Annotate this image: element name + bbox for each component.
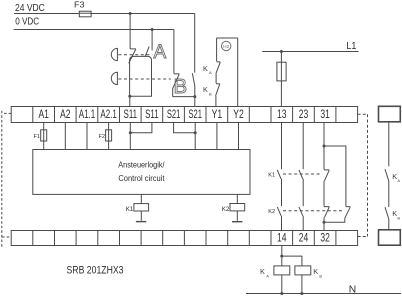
contact KA external (385, 169, 389, 207)
svg-text:S11: S11 (124, 107, 138, 121)
contact KA (feedback NC) (216, 38, 221, 74)
mech link A (dashed) (118, 54, 152, 56)
svg-text:K1: K1 (126, 206, 134, 213)
svg-text:S11: S11 (145, 107, 159, 121)
svg-text:B: B (319, 274, 322, 279)
wire A1.1 to logic (86, 123, 88, 150)
wire jumper S21-S21 (174, 123, 196, 133)
svg-text:B: B (174, 75, 188, 98)
svg-text:A: A (153, 42, 166, 63)
svg-text:A1.1: A1.1 (79, 107, 96, 121)
wire 0VDC rail (14, 29, 174, 31)
svg-text:13: 13 (277, 107, 287, 121)
terminal row top (11, 107, 357, 123)
svg-text:A2: A2 (60, 107, 71, 121)
node branch bottom (323, 221, 326, 224)
svg-text:H2: H2 (223, 44, 229, 49)
switch B body bottom (173, 96, 195, 98)
node on L1 (280, 50, 283, 53)
contact column 23-24 (299, 123, 303, 231)
switch A body (130, 56, 152, 96)
wire from top box (388, 122, 390, 167)
svg-text:14: 14 (277, 230, 287, 244)
contact KB (feedback NC) (216, 74, 220, 107)
external device box bottom right (379, 230, 401, 245)
control logic box U1 (33, 150, 250, 195)
svg-text:A1: A1 (38, 107, 49, 121)
wire S11 to logic (129, 123, 131, 150)
mech link K2 (dashed) (283, 210, 344, 212)
wire jumper S11-S11 (130, 123, 152, 133)
external device box top right (379, 106, 401, 122)
wire drop 24VDC to switch A contact 1 (129, 14, 131, 49)
wire switch B to S21 (194, 97, 196, 107)
wire branch to KB coil (282, 256, 302, 266)
wire A1 to fuse F1 (43, 123, 45, 130)
contactor coil KB (295, 266, 311, 275)
actuator cam A (111, 48, 117, 60)
contact column 13-14 (277, 123, 281, 231)
node KA on N (280, 292, 283, 295)
fuse on L1 drop (277, 62, 286, 81)
svg-text:A: A (397, 178, 400, 183)
svg-text:K1: K1 (268, 172, 275, 178)
wire L1 to terminal 13 (280, 52, 282, 107)
svg-text:23: 23 (299, 107, 309, 121)
wire L1 rail (262, 51, 358, 53)
relay coil K2 (236, 194, 238, 203)
wire loop right to Y2 (237, 38, 239, 107)
node jumper S11 (129, 131, 132, 134)
wire Y2 to logic (238, 123, 240, 150)
svg-text:32: 32 (320, 230, 330, 244)
node jumper S21 (194, 131, 197, 134)
switch B contact 2 (192, 73, 195, 96)
svg-text:S21: S21 (188, 107, 202, 121)
wire KB coil to N (301, 275, 303, 294)
node junction on 0VDC (151, 28, 154, 31)
switch A contact 1 (NC) (129, 49, 136, 64)
wire 14 to coils (281, 246, 283, 267)
svg-text:F1: F1 (34, 134, 41, 140)
wire drop 0VDC corner to switch B contact 1 (173, 30, 175, 74)
fuse F2 (106, 130, 112, 141)
mech link K1 (dashed) (283, 173, 322, 175)
svg-text:24: 24 (299, 230, 309, 244)
wire A2 to logic (64, 123, 66, 150)
node junction on 24VDC (129, 12, 132, 15)
svg-text:K: K (203, 85, 208, 94)
svg-text:Ansteuerlogik/: Ansteuerlogik/ (118, 159, 165, 169)
svg-text:K: K (313, 267, 318, 276)
wire drop 0VDC to switch A contact 2 (151, 30, 153, 51)
feedback loop top wire (217, 37, 238, 39)
svg-text:B: B (209, 92, 212, 97)
svg-text:N: N (349, 285, 356, 296)
svg-text:Control circuit: Control circuit (118, 173, 165, 183)
svg-text:0 VDC: 0 VDC (15, 17, 39, 28)
switch A contact 2 (NO) (145, 47, 149, 57)
svg-text:A2.1: A2.1 (100, 107, 117, 121)
node KB on N (300, 292, 303, 295)
svg-text:Y1: Y1 (212, 107, 223, 121)
svg-text:A: A (209, 70, 212, 75)
svg-text:SRB 201ZHX3: SRB 201ZHX3 (67, 265, 124, 277)
svg-text:Y2: Y2 (233, 107, 244, 121)
svg-text:K: K (203, 64, 208, 73)
svg-text:F2: F2 (99, 134, 106, 140)
fuse F3 (79, 11, 91, 17)
dashed continuation bracket right (358, 113, 368, 115)
svg-text:K: K (260, 267, 265, 276)
wire switch A to S11 (129, 96, 131, 106)
wire N rail (246, 293, 401, 295)
wire drop 24VDC corner to switch B contact 2 (194, 14, 196, 73)
contact KB external (385, 207, 389, 230)
svg-text:K2: K2 (268, 209, 275, 215)
node coil branch (280, 255, 283, 258)
wire parallel branch with NC contact (324, 146, 350, 222)
dashed continuation bracket left (2, 112, 11, 114)
node at switch B output (193, 95, 196, 98)
switch B contact 1 (NC) (173, 74, 180, 97)
contact column 31-32 (NC) (324, 123, 329, 231)
svg-text:A: A (266, 274, 269, 279)
relay coil K1 (140, 194, 142, 203)
wire 24VDC rail (14, 13, 195, 15)
node at switch A output (128, 95, 131, 98)
terminal row bottom (11, 231, 357, 246)
svg-text:S21: S21 (167, 107, 181, 121)
node branch top (323, 145, 326, 148)
wire Y1 to logic (216, 123, 218, 150)
svg-text:31: 31 (320, 107, 330, 121)
device circle H2 (222, 41, 231, 50)
wire A2.1 to fuse F2 (108, 123, 110, 130)
svg-text:24 VDC: 24 VDC (15, 3, 45, 14)
actuator cam B (111, 72, 117, 84)
wire F2 to logic (108, 141, 110, 149)
fuse F1 (41, 130, 47, 141)
wire F1 to logic (43, 141, 45, 149)
svg-text:B: B (397, 216, 400, 221)
wire S21 to logic (194, 123, 196, 150)
svg-text:K2: K2 (222, 206, 230, 213)
mech link B (dashed) (118, 78, 170, 80)
wire KA coil to N (281, 275, 283, 294)
svg-text:L1: L1 (346, 41, 356, 52)
contactor coil KA (274, 266, 290, 275)
svg-text:F3: F3 (74, 0, 85, 10)
